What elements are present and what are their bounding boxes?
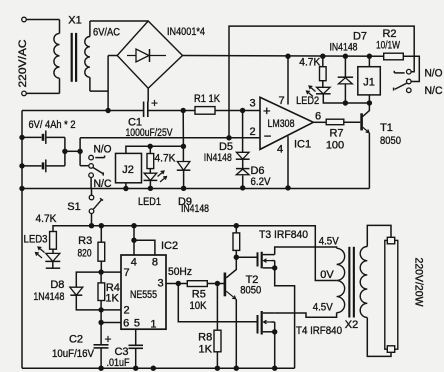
svg-text:5: 5 — [134, 318, 140, 330]
svg-text:7: 7 — [123, 267, 129, 279]
svg-text:R7: R7 — [329, 128, 343, 140]
svg-text:J1: J1 — [363, 77, 375, 89]
svg-text:LED1: LED1 — [138, 196, 161, 208]
svg-text:2: 2 — [123, 305, 129, 317]
svg-text:R8: R8 — [198, 331, 212, 343]
svg-text:R2: R2 — [382, 28, 396, 40]
svg-text:10/1W: 10/1W — [376, 40, 400, 52]
svg-text:X2: X2 — [345, 319, 358, 331]
svg-text:LED2: LED2 — [296, 95, 319, 107]
svg-text:D5: D5 — [219, 141, 233, 153]
svg-text:R1 1K: R1 1K — [194, 93, 221, 105]
svg-text:820: 820 — [78, 247, 92, 259]
svg-text:N/O: N/O — [94, 144, 112, 156]
svg-text:R5: R5 — [192, 288, 206, 300]
svg-text:4.5V: 4.5V — [319, 236, 340, 248]
svg-text:1K: 1K — [198, 344, 212, 356]
svg-text:6: 6 — [315, 111, 321, 123]
svg-text:LM308: LM308 — [268, 118, 295, 130]
svg-text:IN4148: IN4148 — [204, 152, 232, 164]
svg-text:R3: R3 — [78, 235, 92, 247]
svg-text:N/C: N/C — [425, 85, 443, 97]
svg-text:4.7K: 4.7K — [299, 57, 321, 69]
svg-text:IN4148: IN4148 — [181, 203, 209, 215]
svg-text:220V/20W: 220V/20W — [413, 258, 425, 308]
svg-text:C2: C2 — [69, 334, 83, 346]
svg-text:10uF/16V: 10uF/16V — [52, 348, 95, 360]
svg-text:50Hz: 50Hz — [168, 266, 192, 278]
svg-text:6: 6 — [123, 317, 129, 329]
svg-text:4: 4 — [131, 256, 137, 268]
svg-text:T4 IRF840: T4 IRF840 — [296, 325, 342, 337]
svg-text:T3 IRF840: T3 IRF840 — [259, 229, 308, 241]
svg-text:IC1: IC1 — [294, 139, 311, 151]
svg-text:8050: 8050 — [380, 135, 401, 147]
svg-text:NE555: NE555 — [130, 289, 157, 301]
svg-text:X1: X1 — [68, 15, 81, 27]
svg-text:6V/ 4Ah * 2: 6V/ 4Ah * 2 — [29, 119, 76, 131]
svg-text:+: + — [151, 96, 158, 110]
svg-text:IC2: IC2 — [161, 240, 178, 252]
svg-text:220V/AC: 220V/AC — [17, 39, 29, 87]
svg-text:+: + — [104, 332, 111, 346]
svg-text:3: 3 — [250, 98, 256, 110]
svg-text:4.7K: 4.7K — [155, 153, 177, 165]
svg-text:1K: 1K — [105, 293, 119, 305]
svg-text:D8: D8 — [50, 279, 64, 291]
svg-text:1N4148: 1N4148 — [33, 291, 64, 303]
svg-text:4.7K: 4.7K — [36, 213, 58, 225]
svg-text:−: − — [264, 129, 272, 144]
svg-text:10K: 10K — [190, 300, 208, 312]
svg-text:LED3: LED3 — [24, 234, 48, 246]
svg-text:4: 4 — [277, 144, 283, 156]
svg-text:N/O: N/O — [425, 68, 443, 80]
svg-text:S1: S1 — [67, 201, 80, 213]
svg-text:7: 7 — [278, 95, 284, 107]
svg-text:1: 1 — [150, 319, 156, 331]
svg-text:+: + — [263, 103, 271, 118]
svg-text:J2: J2 — [122, 164, 134, 176]
svg-text:8050: 8050 — [240, 285, 261, 297]
svg-text:2: 2 — [250, 126, 256, 138]
svg-text:IN4148: IN4148 — [330, 42, 358, 54]
svg-text:T1: T1 — [380, 122, 393, 134]
svg-text:3: 3 — [157, 278, 163, 290]
svg-text:4.5V: 4.5V — [313, 301, 334, 313]
svg-text:6V/AC: 6V/AC — [93, 27, 120, 39]
svg-text:IN4001*4: IN4001*4 — [167, 26, 205, 38]
svg-text:8: 8 — [152, 256, 158, 268]
svg-text:100: 100 — [326, 140, 344, 152]
svg-text:0V: 0V — [320, 269, 334, 281]
svg-text:6.2V: 6.2V — [251, 176, 272, 188]
svg-text:.01uF: .01uF — [107, 357, 130, 369]
